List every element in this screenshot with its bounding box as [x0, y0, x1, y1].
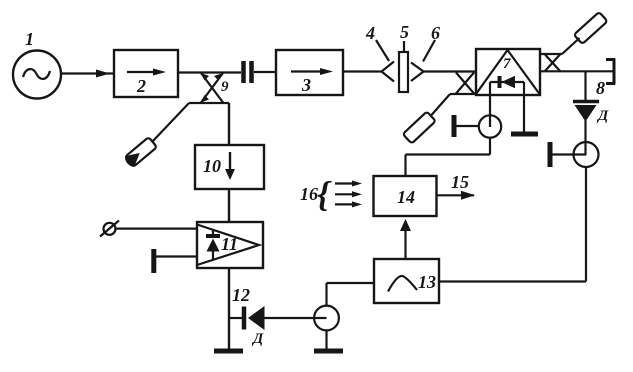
svg-text:13: 13	[418, 272, 436, 292]
svg-text:Д: Д	[251, 331, 264, 347]
svg-text:10: 10	[203, 156, 221, 176]
svg-text:9: 9	[221, 79, 229, 95]
svg-text:8: 8	[596, 78, 605, 98]
svg-text:{: {	[317, 174, 332, 214]
svg-text:2: 2	[136, 76, 146, 96]
svg-text:3: 3	[301, 75, 311, 95]
svg-text:7: 7	[503, 56, 511, 72]
svg-text:4: 4	[365, 23, 375, 43]
svg-text:6: 6	[431, 23, 440, 43]
svg-text:14: 14	[397, 187, 415, 207]
svg-text:16: 16	[300, 184, 318, 204]
svg-text:12: 12	[232, 285, 250, 305]
svg-text:1: 1	[25, 29, 34, 49]
svg-text:Д: Д	[596, 108, 609, 124]
svg-text:11: 11	[221, 234, 238, 254]
svg-text:15: 15	[451, 172, 469, 192]
svg-text:5: 5	[400, 22, 409, 42]
